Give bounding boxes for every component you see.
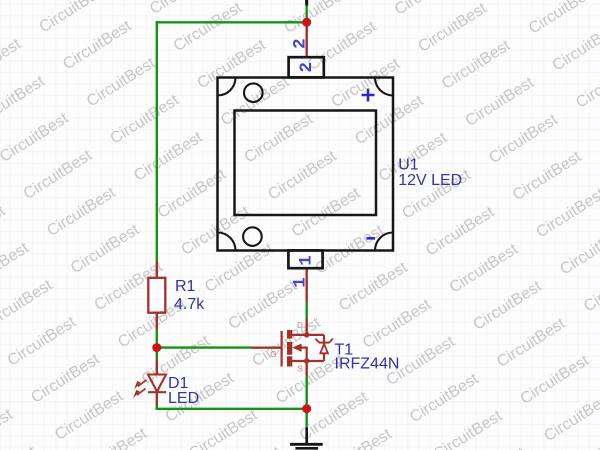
- svg-text:R1: R1: [175, 278, 196, 295]
- svg-text:S: S: [298, 365, 303, 374]
- svg-text:D: D: [297, 321, 303, 330]
- svg-text:1: 1: [297, 255, 317, 266]
- svg-text:12V LED: 12V LED: [398, 172, 462, 189]
- svg-text:IRFZ44N: IRFZ44N: [335, 356, 400, 373]
- svg-text:G: G: [270, 350, 276, 359]
- svg-text:1: 1: [291, 277, 311, 288]
- svg-text:4.7k: 4.7k: [174, 296, 205, 313]
- svg-text:LED: LED: [168, 390, 199, 407]
- svg-text:2: 2: [297, 62, 317, 73]
- svg-text:2: 2: [290, 38, 310, 49]
